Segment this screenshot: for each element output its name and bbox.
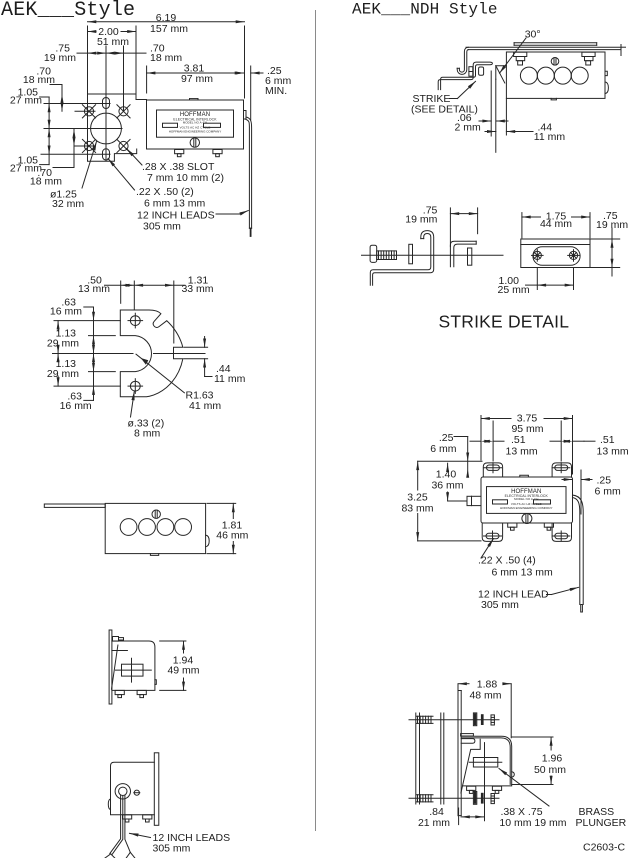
view I plate	[457, 691, 459, 816]
view E left bump	[108, 799, 110, 810]
dim 3.81 97mm	[147, 72, 244, 74]
svg-text:41 mm: 41 mm	[189, 400, 221, 412]
view A second vertical centerline	[123, 46, 125, 111]
lead wire A	[246, 120, 249, 229]
view D body profile	[112, 641, 155, 690]
view C body outline	[105, 503, 205, 553]
view F hanger bracket	[457, 50, 468, 75]
view A bottom slot .28x.38	[103, 149, 110, 160]
svg-text:7 mm 10 mm (2): 7 mm 10 mm (2)	[147, 172, 224, 184]
strike washer	[409, 244, 413, 263]
view I top stud washer	[473, 713, 476, 726]
leader 12 inch leads	[216, 213, 240, 215]
view B hole bottom cross	[128, 385, 143, 387]
view H bottom ear right slot	[555, 533, 568, 538]
view I terminal right	[492, 786, 501, 790]
strike plate screw right	[569, 251, 577, 259]
view I plunger window	[473, 758, 497, 768]
view D dim 1.94 49mm	[160, 640, 186, 642]
view F bolt right	[582, 52, 595, 56]
view H bottom ear right	[552, 523, 571, 541]
view I bottom stud bar	[481, 793, 484, 804]
view F rail end tick	[620, 45, 622, 56]
view B left dim bracket x93.5	[84, 306, 94, 308]
view B center horizontal right segment	[154, 353, 206, 355]
view E grommet inner	[119, 787, 127, 795]
svg-text:19 mm: 19 mm	[596, 219, 628, 231]
view E lead wires	[110, 796, 121, 854]
view H lead wire	[573, 498, 580, 605]
view B left dim line x58	[57, 321, 59, 331]
view D slope line	[112, 645, 118, 689]
dim .75 19mm right	[590, 238, 620, 240]
dim 6.19 left extension	[87, 26, 89, 94]
view A X row stub bottom	[75, 145, 95, 147]
view H leader .22 x .50 (4)	[481, 539, 494, 559]
strike plate front view	[521, 239, 590, 268]
svg-text:MIN.: MIN.	[265, 85, 287, 97]
view C flange bar	[44, 504, 105, 507]
svg-text:3.25: 3.25	[407, 491, 428, 503]
view I body outline outer	[461, 736, 512, 786]
view A mounting hole circle dia 1.25	[91, 113, 122, 144]
view D crosshair box	[122, 664, 144, 676]
view A terminal left	[175, 150, 184, 154]
strike J bracket side view	[370, 234, 431, 286]
view D terminal left	[115, 690, 124, 694]
view B top dim extensions	[120, 281, 122, 303]
view A top slot .28x.38	[103, 98, 110, 109]
svg-text:MODEL NO A-CH: MODEL NO A-CH	[514, 497, 538, 501]
svg-text:11 mm: 11 mm	[214, 373, 246, 385]
svg-text:.51: .51	[600, 434, 615, 446]
svg-text:44 mm: 44 mm	[540, 218, 572, 230]
view F top screw	[551, 58, 559, 66]
svg-text:48 mm: 48 mm	[469, 690, 501, 702]
view D inner step line	[112, 650, 128, 652]
view I top stud centerline	[409, 719, 499, 721]
leader .28 x .38 slot	[127, 149, 143, 166]
svg-text:29 mm: 29 mm	[47, 338, 79, 350]
view E grommet outer	[115, 784, 130, 799]
svg-text:.22 X .50 (4): .22 X .50 (4)	[478, 555, 536, 567]
view F rail lines	[466, 46, 621, 48]
svg-text:10 mm 19 mm: 10 mm 19 mm	[499, 817, 566, 829]
view H left plunger	[467, 496, 481, 505]
svg-text:19 mm: 19 mm	[405, 214, 437, 226]
view H bottom screw	[522, 514, 532, 524]
leader dia 1.25	[82, 142, 97, 189]
view B row1 line	[54, 320, 120, 322]
view F 30 deg leader	[500, 38, 527, 73]
view H hoffman label	[487, 487, 567, 514]
view A body outline	[147, 100, 244, 149]
strike plate screw left	[533, 251, 541, 259]
svg-text:PLUNGER: PLUNGER	[576, 817, 627, 829]
svg-text:.25: .25	[597, 474, 612, 486]
view I strip2 lines	[440, 713, 442, 804]
view A hoffman label	[157, 110, 234, 137]
view H terminal right	[544, 523, 553, 527]
view F dim .44 11mm	[505, 98, 507, 135]
svg-text:1.96: 1.96	[542, 753, 563, 765]
view F panel flange strip	[514, 42, 597, 44]
view F body outline	[506, 52, 605, 98]
svg-text:6 mm: 6 mm	[595, 486, 622, 498]
view D crosshair lines	[116, 669, 152, 671]
svg-text:6 mm 13 mm: 6 mm 13 mm	[492, 567, 554, 579]
view D panel plate	[109, 630, 112, 704]
view H leader 12 inch lead	[547, 594, 552, 596]
svg-text:2 mm: 2 mm	[455, 122, 482, 134]
svg-text:83 mm: 83 mm	[401, 503, 433, 515]
view A horizontal centerline	[44, 128, 122, 130]
view B hole top dia .33	[130, 316, 140, 326]
svg-text:AEK___Style: AEK___Style	[1, 0, 135, 22]
view A cover screw	[190, 138, 199, 147]
view H dim .25 6mm right	[580, 470, 582, 514]
view H plunger centerline stub	[448, 500, 467, 502]
wire tab on body	[244, 111, 247, 120]
dim 2.00 51mm	[88, 31, 97, 33]
view B row4 line	[89, 371, 116, 373]
svg-text:16 mm: 16 mm	[60, 400, 92, 412]
view B row2 line	[89, 335, 116, 337]
svg-text:305 mm: 305 mm	[143, 221, 181, 233]
svg-text:19 mm: 19 mm	[44, 52, 76, 64]
svg-text:95 mm: 95 mm	[511, 423, 543, 435]
view I top stud threads	[417, 716, 419, 723]
view I bottom stud centerline	[409, 797, 499, 799]
svg-text:305 mm: 305 mm	[153, 843, 191, 855]
view A bottom slot row line	[41, 153, 110, 155]
view H top ear right slot	[555, 465, 568, 470]
view A keyhole X top-right	[119, 107, 128, 116]
view I body outline inner	[461, 738, 510, 785]
view H top ear right	[552, 463, 571, 477]
dim 2.00 right extension	[135, 26, 137, 94]
view H top ear left	[483, 463, 502, 477]
view A terminal right	[213, 150, 222, 154]
svg-text:21 mm: 21 mm	[418, 817, 450, 829]
svg-text:AEK___NDH Style: AEK___NDH Style	[352, 1, 498, 19]
view B cutout outline	[120, 310, 183, 397]
svg-text:6 mm: 6 mm	[430, 443, 457, 455]
view H bottom ear left slot	[486, 533, 499, 538]
svg-text:.51: .51	[511, 434, 526, 446]
view B hole top cross	[128, 320, 143, 322]
view B right notch dim .44 11mm	[184, 346, 208, 348]
view A body top tab	[190, 98, 199, 100]
view I bottom stud washer	[473, 792, 476, 805]
view B leader dia .33	[131, 391, 135, 417]
svg-text:157 mm: 157 mm	[150, 23, 188, 35]
svg-text:13 mm: 13 mm	[597, 446, 628, 458]
strike detail centerline	[362, 254, 504, 256]
view H dim 1.40 36mm	[447, 463, 449, 466]
dim 1.00 25mm	[536, 268, 538, 290]
strike angle plate	[468, 248, 472, 265]
strike screw threads	[378, 251, 380, 260]
svg-text:33 mm: 33 mm	[181, 283, 213, 295]
view A keyhole X bottom-left	[84, 141, 93, 150]
wire extension line	[250, 66, 252, 120]
view C right bump	[206, 535, 210, 547]
view E lead forks	[105, 854, 111, 858]
view I dim 1.88 48mm	[457, 684, 459, 707]
svg-text:27 mm: 27 mm	[10, 95, 42, 107]
dim 1.75 44mm	[521, 213, 523, 238]
view I dim 1.96 50mm	[512, 736, 553, 738]
view E screw	[134, 790, 139, 795]
view I terminal left	[467, 786, 476, 790]
view A top slot row line	[44, 103, 110, 105]
view I top-left screw	[461, 734, 474, 736]
svg-text:16 mm: 16 mm	[50, 305, 82, 317]
svg-text:18 mm: 18 mm	[150, 52, 182, 64]
svg-text:51 mm: 51 mm	[97, 36, 129, 48]
dim .75 19mm and .70 18mm chain line	[77, 52, 146, 54]
view F strike nut	[479, 67, 484, 75]
view F strike bracket arm	[438, 62, 492, 90]
view E leader 12 inch leads	[130, 833, 151, 837]
view H lead wire tip	[581, 605, 583, 613]
view H dim .51 13mm right	[560, 421, 562, 461]
view E body outline	[111, 762, 155, 815]
view H body outline	[481, 477, 573, 523]
svg-text:11 mm: 11 mm	[534, 131, 566, 143]
svg-text:49 mm: 49 mm	[167, 665, 199, 677]
view C knockout circles	[120, 519, 137, 536]
svg-text:.22 X .50 (2): .22 X .50 (2)	[136, 186, 194, 198]
strike angle end view	[450, 241, 476, 267]
svg-text:6 mm 13 mm: 6 mm 13 mm	[144, 198, 206, 210]
svg-text:36 mm: 36 mm	[431, 480, 463, 492]
view I dim .84 21mm	[458, 808, 460, 825]
view H dim 3.25 83mm	[418, 460, 482, 462]
view D screw head on plate	[113, 637, 119, 642]
view I right bump	[512, 772, 515, 777]
view F right plunger bump	[605, 82, 608, 94]
view F bolt left	[514, 52, 527, 56]
dim 6.19 right extension	[244, 26, 246, 98]
view A X row stub top	[75, 110, 95, 112]
view H terminal left	[508, 523, 517, 527]
view I top stud nut	[491, 715, 494, 725]
dim 3.81 left extension	[146, 66, 148, 93]
svg-text:18 mm: 18 mm	[30, 176, 62, 188]
view B row5 line	[54, 385, 120, 387]
svg-text:50 mm: 50 mm	[534, 764, 566, 776]
dim .25 6mm MIN	[236, 72, 245, 75]
view I inner step and slope	[461, 739, 480, 793]
svg-text:25 mm: 25 mm	[498, 284, 530, 296]
leader .22 x .50	[108, 159, 135, 191]
view F dim .06 2mm	[490, 71, 492, 136]
view F bottom tab	[551, 98, 556, 100]
view A mounting plate outline	[88, 94, 147, 161]
view E terminal right	[143, 815, 152, 819]
view I crosshair vertical	[484, 743, 486, 821]
view F knockout circles	[520, 67, 537, 84]
view H top ear left slot	[487, 465, 500, 470]
svg-text:305 mm: 305 mm	[481, 599, 519, 611]
view H dim .51 13mm left	[492, 421, 494, 461]
view I plunger centerline	[469, 761, 502, 763]
view D right tab	[155, 680, 156, 685]
view C top screw	[152, 510, 160, 518]
column divider line	[315, 10, 317, 831]
strike screw head	[370, 245, 377, 262]
svg-text:8 mm: 8 mm	[134, 428, 161, 440]
view H bottom ear left	[482, 523, 502, 541]
view F strike leader	[450, 98, 458, 100]
view D terminal right	[137, 690, 146, 694]
view H top tab	[520, 475, 529, 477]
view B hole bottom dia .33	[130, 381, 140, 391]
dim 6.19 157mm	[88, 21, 245, 23]
svg-text:HOFFMAN ENGINEERING COMPANY: HOFFMAN ENGINEERING COMPANY	[500, 506, 552, 510]
view H dim 3.75 95mm	[480, 416, 482, 461]
view A keyhole X bottom-right	[119, 141, 128, 150]
view I bottom stud nut	[491, 794, 494, 804]
view I top stud bar	[481, 714, 484, 725]
view I panel lines	[415, 713, 417, 804]
svg-text:30°: 30°	[525, 29, 541, 41]
view A vertical centerline	[105, 46, 107, 161]
svg-text:46 mm: 46 mm	[216, 529, 248, 541]
svg-text:C2603-C: C2603-C	[583, 842, 625, 854]
svg-text:13 mm: 13 mm	[506, 446, 538, 458]
svg-text:29 mm: 29 mm	[47, 368, 79, 380]
view F strike screw block	[469, 67, 473, 77]
view B center horizontal line	[53, 353, 134, 355]
strike screw shank	[377, 251, 397, 260]
svg-text:STRIKE DETAIL: STRIKE DETAIL	[439, 311, 570, 331]
svg-text:97 mm: 97 mm	[181, 73, 213, 85]
svg-text:HOFFMAN ENGINEERING COMPANY: HOFFMAN ENGINEERING COMPANY	[169, 130, 221, 134]
view F cam wedge	[496, 66, 507, 80]
view C bottom tab	[150, 554, 158, 556]
view B radius leader R1.63	[136, 354, 184, 393]
view E terminal left	[123, 815, 132, 819]
view F right small bump	[605, 71, 607, 75]
svg-text:32 mm: 32 mm	[52, 198, 84, 210]
view I leader .38 x .75	[499, 769, 549, 807]
view C dim 1.81 46mm	[207, 502, 236, 504]
strike plate slot	[533, 247, 580, 266]
view I bottom stud threads	[417, 795, 419, 802]
view A keyhole X top-left	[84, 107, 93, 116]
view E panel plate	[154, 753, 159, 826]
